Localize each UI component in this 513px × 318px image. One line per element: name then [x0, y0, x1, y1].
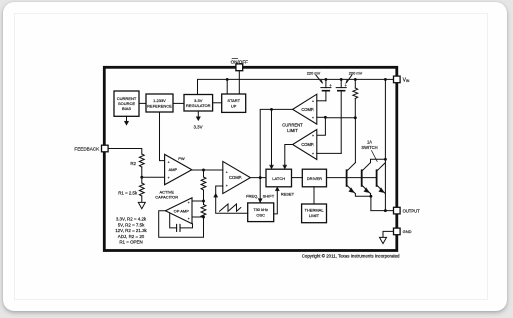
pin VIN: [394, 76, 401, 83]
wire sense node to upper comp lower input: [317, 116, 326, 118]
open arrow below R1: [138, 202, 145, 208]
input marks lower comp: [312, 134, 314, 156]
svg-text:R1 = OPEN: R1 = OPEN: [119, 240, 142, 245]
svg-text:+: +: [168, 160, 170, 164]
svg-text:12V, R2 = 21.3k: 12V, R2 = 21.3k: [115, 228, 147, 233]
svg-text:OSC: OSC: [256, 212, 265, 217]
svg-text:DRIVER: DRIVER: [307, 176, 322, 181]
label current source bias: [117, 96, 137, 111]
junction dot sense/comp: [324, 116, 327, 119]
wire rail to start-up top: [226, 79, 228, 94]
wire reset: osc to latch: [274, 190, 278, 214]
wire op amp feedback loop: [159, 211, 204, 238]
junction dot emitter node: [369, 195, 372, 198]
svg-text:+: +: [345, 83, 348, 88]
wire reference down to PW amp input: [160, 112, 165, 161]
junction dot collector node: [384, 158, 387, 161]
label thermal limit: [304, 208, 324, 218]
wire Q2 collector to VIN drop: [371, 159, 386, 162]
svg-text:+: +: [312, 134, 314, 138]
svg-text:CURRENT: CURRENT: [282, 122, 303, 127]
sense resistor: [353, 79, 358, 117]
junction dot chain top: [202, 169, 205, 172]
wire regulator to start up: [213, 102, 222, 104]
amplifier PW AMP: [165, 154, 192, 184]
svg-text:+: +: [312, 116, 314, 120]
resistor R4: [201, 201, 206, 218]
wire chain to op amp upper input: [192, 200, 204, 202]
wire latch to driver: [292, 177, 303, 179]
svg-text:COMP.: COMP.: [229, 175, 242, 180]
svg-text:OP AMP: OP AMP: [174, 209, 190, 214]
svg-text:COMP.: COMP.: [301, 142, 314, 147]
wire reference to regulator: [173, 102, 184, 104]
box: 1.233V reference: [146, 94, 173, 112]
svg-text:FREQ.: FREQ.: [246, 194, 258, 199]
wire R2 to node: [141, 167, 143, 177]
label active capacitor: [155, 189, 178, 199]
svg-text:GND: GND: [403, 229, 412, 234]
wire output: [371, 210, 394, 212]
label freq shift: [246, 194, 275, 199]
wire error amp output to pwm comp: [192, 169, 223, 171]
comparator U3 pwm comp: [223, 161, 251, 193]
arrowhead into latch top (from lower comp): [283, 165, 287, 169]
wire driver to switch base: [327, 177, 377, 179]
svg-text:CAPACITOR: CAPACITOR: [155, 195, 178, 200]
box: latch: [266, 169, 292, 187]
junction dot rail/220mV: [324, 78, 327, 81]
wire bias to reference: [139, 102, 146, 104]
voltage source 200mV: [336, 79, 346, 153]
capacitor C1 under op amp: [170, 213, 193, 231]
resistor chain R3: [201, 170, 206, 201]
wire 200mV to lower comp input: [317, 152, 341, 154]
svg-text:REGULATOR: REGULATOR: [186, 103, 211, 108]
svg-text:+: +: [226, 184, 228, 188]
wire on/off pin down to start-up: [238, 70, 240, 94]
svg-text:ON/OFF: ON/OFF: [231, 60, 249, 65]
pin GND: [394, 228, 401, 235]
transistor Q3: [377, 163, 386, 194]
box: 730 kHz osc: [248, 203, 274, 222]
svg-text:SWITCH: SWITCH: [361, 145, 377, 150]
svg-text:3.3V, R2 = 4.2k: 3.3V, R2 = 4.2k: [116, 217, 147, 222]
svg-text:R2: R2: [130, 161, 136, 166]
voltage source 220mV: [321, 79, 331, 100]
svg-text:OUTPUT: OUTPUT: [403, 208, 420, 213]
svg-text:LATCH: LATCH: [272, 176, 285, 181]
pointer 200mV label: [346, 75, 352, 84]
wire lower comp output to latch: [285, 145, 293, 167]
svg-text:LIMIT: LIMIT: [309, 213, 320, 218]
label resistor table: [115, 217, 147, 245]
junction dot feedback node: [140, 176, 143, 179]
input marks pwm comp: [226, 170, 228, 188]
junction dot chain mid: [202, 200, 205, 203]
pointer 220mV label: [316, 75, 323, 84]
box: thermal limit: [302, 204, 327, 223]
comparator U1 current-limit upper: [293, 94, 317, 124]
label 730 kHz osc: [253, 207, 268, 217]
transistor Q1: [347, 163, 356, 194]
svg-text:REFERENCE: REFERENCE: [147, 103, 172, 108]
box: 3.3V regulator: [184, 95, 213, 112]
svg-text:+: +: [312, 152, 314, 156]
svg-text:+: +: [329, 83, 332, 88]
wire node to PW amp input: [142, 176, 165, 178]
svg-text:200 mV: 200 mV: [349, 70, 363, 75]
schematic outer border: [104, 67, 397, 250]
box: current source bias: [114, 91, 139, 116]
arrowhead reset into latch bottom: [275, 187, 279, 191]
junction dot sense resistor bottom: [354, 116, 357, 119]
wire sense horizontal: [325, 117, 355, 119]
svg-text:BIAS: BIAS: [122, 106, 131, 111]
svg-text:5V, R2 = 7.5k: 5V, R2 = 7.5k: [118, 222, 145, 227]
arrowhead on osc feed: [214, 193, 218, 197]
svg-text:3.3V: 3.3V: [193, 124, 202, 129]
svg-text:220 mV: 220 mV: [307, 70, 321, 75]
pin FEEDBACK: [102, 145, 109, 152]
label 1.233V reference: [147, 98, 172, 108]
top supply rail: [198, 79, 394, 94]
input marks pw amp: [168, 160, 170, 179]
svg-text:COMP.: COMP.: [301, 107, 314, 112]
input marks op amp: [188, 201, 190, 221]
svg-text:+: +: [226, 170, 228, 174]
arrowhead into latch top (from upper comp): [270, 165, 274, 169]
label current limit: [282, 122, 303, 133]
junction dot upper comp out: [270, 108, 273, 111]
pointer 1A switch label: [372, 151, 378, 162]
pin ON/OFF: [236, 64, 243, 71]
wire 220mV to upper comp input: [317, 100, 326, 102]
junction dot rail/VIN drop: [384, 78, 387, 81]
wire pwm comp output to latch: [250, 177, 266, 179]
svg-text:FEEDBACK: FEEDBACK: [74, 146, 100, 151]
wire chain to op amp lower input: [192, 216, 204, 218]
comparator U2 current-limit lower: [293, 130, 317, 160]
svg-text:R1 = 2.5k: R1 = 2.5k: [118, 191, 138, 196]
resistor R2: [139, 154, 144, 167]
wire Q1 collector to sense node: [354, 118, 356, 163]
wire branch down to latch: [271, 109, 273, 166]
wire gnd pin to ground: [383, 231, 394, 237]
wire VIN drop: [384, 79, 386, 210]
input marks upper comp: [312, 100, 314, 121]
arrow 3.3V below regulator: [196, 111, 200, 121]
amplifier OP AMP (active capacitor): [165, 198, 192, 224]
sawtooth waveform: [220, 204, 241, 211]
resistor R1: [139, 177, 144, 202]
wire driver to thermal limit: [313, 187, 315, 204]
svg-text:PW: PW: [178, 156, 185, 161]
label start up: [227, 98, 240, 108]
wire Q1 Q2 emitters join: [355, 194, 371, 197]
wire osc to pwm comp lower input: [216, 186, 248, 213]
svg-text:VIN: VIN: [403, 77, 410, 83]
junction dot rail/sense resistor: [354, 78, 357, 81]
svg-text:AMP: AMP: [168, 167, 177, 172]
svg-text:+: +: [168, 176, 170, 180]
pin OUTPUT: [394, 207, 401, 214]
junction dot rail/200mV: [340, 78, 343, 81]
junction dot chain lower: [202, 216, 205, 219]
wire sense node down to lower comp input: [317, 117, 326, 135]
label 1A switch: [361, 139, 377, 150]
wire feedback pin to R2: [108, 149, 142, 155]
svg-text:RESET: RESET: [281, 191, 295, 196]
transistor Q2: [362, 163, 371, 194]
arrow below current source bias: [124, 116, 128, 125]
wire upper comp output to latch and freq shift: [260, 109, 292, 202]
ground symbol: [380, 237, 387, 243]
arrowhead into osc top (freq shift): [258, 199, 262, 203]
junction dot freq-shift crossing comp output: [259, 176, 262, 179]
svg-text:ADJ, R2 = 20: ADJ, R2 = 20: [118, 234, 145, 239]
svg-text:SHIFT: SHIFT: [263, 194, 275, 199]
svg-text:+: +: [188, 201, 190, 205]
wire emitter node to output: [370, 196, 372, 210]
label 3.3V regulator: [186, 98, 211, 108]
svg-text:UP: UP: [231, 103, 237, 108]
svg-text:Copyright © 2011, Texas Instru: Copyright © 2011, Texas Instruments Inco…: [302, 254, 400, 259]
svg-text:+: +: [188, 217, 190, 221]
svg-text:1A: 1A: [367, 139, 372, 144]
box: driver: [302, 169, 326, 187]
box: start up: [222, 94, 246, 112]
junction dot output/VIN drop: [384, 209, 387, 212]
svg-text:+: +: [312, 100, 314, 104]
svg-text:LIMIT: LIMIT: [287, 128, 298, 133]
junction dot rail/start-up: [226, 78, 229, 81]
